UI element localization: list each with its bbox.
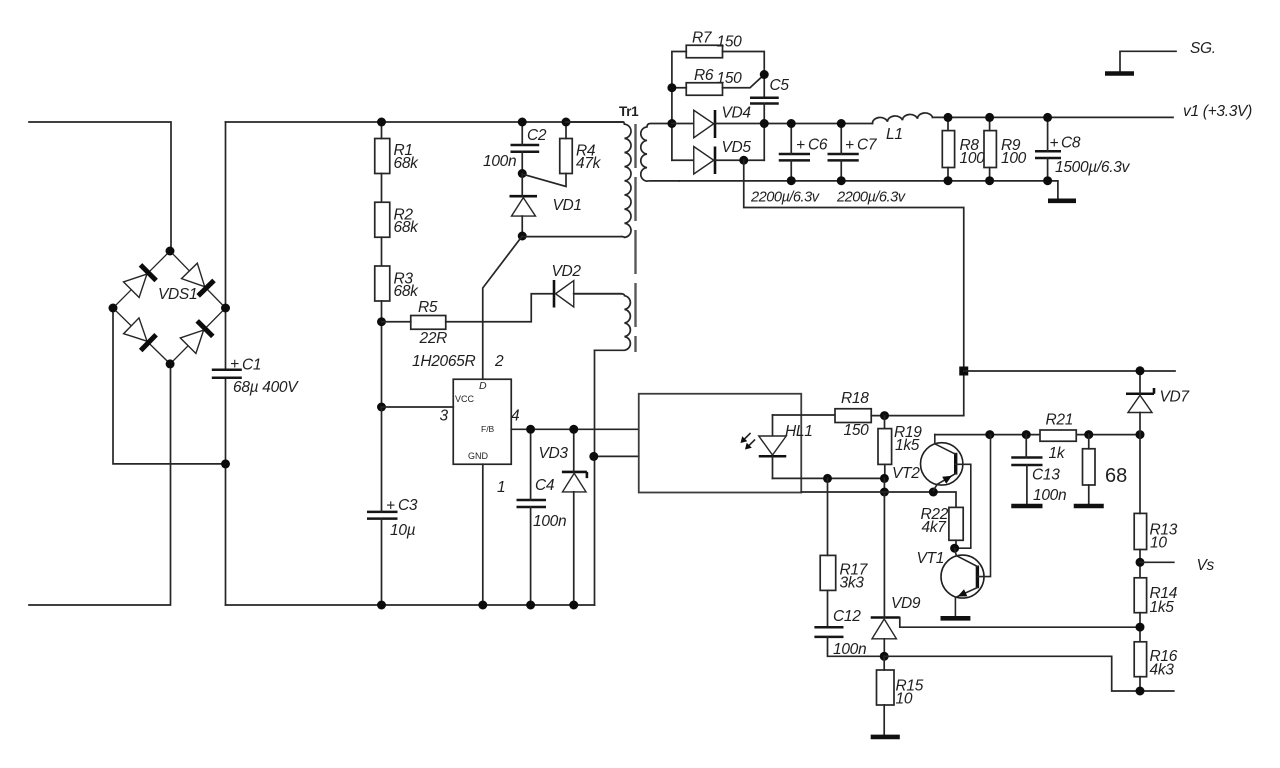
wire: VD1 node to transformer primary bottom <box>522 236 621 238</box>
resistor R18 <box>835 390 871 439</box>
wire: C4 leads <box>530 429 532 605</box>
wire: R22 bottom lead <box>955 540 957 548</box>
node: R16 bottom junction <box>1136 687 1145 696</box>
svg-text:+: + <box>230 356 239 373</box>
capacitor C4 <box>517 477 567 530</box>
wire: R5 to VD2 <box>446 294 554 322</box>
ground: SG symbol <box>1105 40 1216 74</box>
svg-text:v1 (+3.3V): v1 (+3.3V) <box>1183 103 1252 120</box>
wire: feedback top rail to VD7 <box>964 370 1175 372</box>
wire: R19 leads <box>884 416 886 479</box>
node: R5 junction <box>377 317 386 326</box>
svg-text:68k: 68k <box>394 219 420 236</box>
svg-text:100: 100 <box>960 150 986 167</box>
wire: R1-R2 link <box>381 122 383 202</box>
node: rail at C8 <box>1043 113 1052 122</box>
node: C5 top junction <box>760 70 769 79</box>
diode VD4 <box>672 105 752 139</box>
wire: VD2 to feedback winding <box>574 293 621 295</box>
node: VD7 anode junction <box>1136 430 1145 439</box>
diode VD2 <box>552 263 582 308</box>
node: 68 resistor junction <box>1084 430 1093 439</box>
wire: VD3 leads <box>573 429 575 605</box>
node: bus at C4 <box>526 601 535 610</box>
wire: C13 leads <box>1025 435 1028 505</box>
svg-text:68µ 400V: 68µ 400V <box>233 379 299 396</box>
zener diode VD3 <box>539 445 587 492</box>
svg-text:2: 2 <box>494 353 504 370</box>
svg-text:C8: C8 <box>1061 135 1081 152</box>
resistor R7 <box>686 30 742 58</box>
transistor VT2 <box>892 435 971 549</box>
wire: LED cathode to VT2 base row <box>773 477 885 479</box>
wire: VT2 collector rail <box>935 434 1140 436</box>
svg-text:C13: C13 <box>1032 467 1060 484</box>
resistor R13 <box>1134 513 1178 551</box>
wire: C8 leads <box>1047 117 1049 180</box>
svg-text:4k7: 4k7 <box>922 519 948 536</box>
node: bottom bus at C7 <box>837 176 846 185</box>
wire: C12 bottom to R15 node <box>828 637 885 656</box>
svg-text:C7: C7 <box>857 137 878 154</box>
svg-text:1k: 1k <box>1049 445 1066 462</box>
capacitor C12 <box>814 608 866 658</box>
resistor R19 <box>878 424 922 464</box>
resistor R6 <box>686 67 742 95</box>
wire: R7/R6 left vertical <box>672 52 686 161</box>
inductor L1 <box>872 113 932 143</box>
svg-text:VD7: VD7 <box>1160 389 1191 406</box>
optocoupler HL1 box <box>639 394 813 493</box>
wire: lower row to R22 <box>801 492 956 507</box>
svg-text:R5: R5 <box>418 299 438 316</box>
wire: C5 bottom lead <box>763 104 765 161</box>
wire: diagonal to chip pin D <box>483 236 523 379</box>
svg-text:C12: C12 <box>833 608 861 625</box>
wire: R14 bottom lead <box>1139 613 1141 642</box>
wire: C2 leads <box>521 122 523 174</box>
resistor R2 <box>375 202 419 237</box>
wire: VD9 cathode hook to R14/R16 node <box>900 618 1140 628</box>
LED of HL1 <box>759 415 787 478</box>
node: bridge right junction <box>221 304 230 313</box>
ground: output bus ground <box>1048 199 1076 204</box>
node: bridge left junction <box>109 304 118 313</box>
svg-text:VCC: VCC <box>455 394 475 404</box>
wire: VCC pin 3 <box>382 406 454 408</box>
wire: VD5 node to feedback network <box>744 160 964 415</box>
node: bus at R8 <box>944 176 953 185</box>
wire: +DC top rail <box>226 121 624 123</box>
svg-text:150: 150 <box>717 34 743 51</box>
wire: C3 leads <box>381 407 383 605</box>
svg-text:10: 10 <box>896 691 913 708</box>
svg-text:HL1: HL1 <box>785 423 813 440</box>
svg-text:C3: C3 <box>398 497 418 514</box>
node: top rail at R1 <box>377 118 386 127</box>
node: lower row junction <box>880 488 889 497</box>
node: VCC junction <box>377 403 386 412</box>
resistor R14 <box>1134 578 1178 616</box>
wire: VD7 leads <box>1139 371 1141 435</box>
svg-text:10µ: 10µ <box>390 522 416 539</box>
wire: bridge left node to negative rail <box>113 308 226 464</box>
svg-text:1: 1 <box>497 479 505 496</box>
svg-text:100n: 100n <box>483 153 516 170</box>
svg-text:VD3: VD3 <box>539 445 569 462</box>
svg-text:10: 10 <box>1150 535 1167 552</box>
svg-text:100n: 100n <box>1033 487 1066 504</box>
IC U1 1H2065R <box>412 353 511 464</box>
node: R6 left junction <box>667 83 676 92</box>
ground: VT1 emitter <box>941 616 971 621</box>
node: VD7 top junction <box>1136 366 1145 375</box>
node: bus at R-chain <box>377 601 386 610</box>
node: bus at C8 <box>1043 176 1052 185</box>
svg-text:1500µ/6.3v: 1500µ/6.3v <box>1055 159 1131 176</box>
svg-text:1k5: 1k5 <box>1150 599 1175 616</box>
zener diode VD7 <box>1126 388 1190 413</box>
svg-text:VD4: VD4 <box>722 105 752 122</box>
resistor R22 <box>921 506 964 540</box>
zener diode VD9 <box>871 595 921 639</box>
svg-text:R7: R7 <box>692 30 713 47</box>
node: VD4 anode junction <box>667 119 676 128</box>
wire: GND pin 1 to bus <box>482 464 484 605</box>
wire: VD1 leads <box>521 174 523 237</box>
svg-text:C5: C5 <box>770 77 790 94</box>
node: top rail at C2 <box>518 118 527 127</box>
wire: stub to optocoupler lower pin <box>594 455 639 457</box>
wire: R15 leads <box>883 656 885 736</box>
node: rail at R8 <box>944 113 953 122</box>
resistor R15 <box>877 670 924 708</box>
node: R17 top junction <box>823 474 832 483</box>
node: feedback leg junction <box>589 452 598 461</box>
capacitor C6 <box>779 137 828 161</box>
wire: bridge right node up to +DC rail <box>225 122 227 370</box>
svg-text:+: + <box>1050 135 1059 152</box>
svg-text:4k3: 4k3 <box>1150 662 1175 679</box>
node: F/B at VD3 <box>569 425 578 434</box>
svg-text:1H2065R: 1H2065R <box>412 353 475 370</box>
svg-text:Tr1: Tr1 <box>619 104 639 119</box>
svg-text:GND: GND <box>468 451 489 461</box>
node: R14/R16 junction <box>1136 623 1145 632</box>
wire: R16 bottom lead <box>1139 677 1141 691</box>
wire: lower bus to R16 <box>884 656 1174 691</box>
wire: AC input top (left edge to bridge top) <box>29 122 171 251</box>
node: R19 bottom junction <box>880 474 889 483</box>
svg-text:2200µ/6.3v: 2200µ/6.3v <box>836 190 906 206</box>
node: C2 bottom junction <box>518 169 527 178</box>
node: R18/R19 junction <box>880 411 889 420</box>
wire: VD9 leads <box>883 492 885 656</box>
resistor R4 <box>560 139 602 174</box>
resistor R16 <box>1134 642 1178 679</box>
node: rail at C7 <box>837 119 846 128</box>
svg-text:F/B: F/B <box>481 424 495 434</box>
svg-text:47k: 47k <box>576 155 602 172</box>
svg-text:+: + <box>386 498 395 515</box>
svg-text:SG.: SG. <box>1190 40 1216 57</box>
node: Vs junction <box>1136 558 1145 567</box>
capacitor C3 <box>367 497 418 539</box>
capacitor C13 <box>1011 458 1066 505</box>
node: rail at C6 <box>787 119 796 128</box>
wire: feedback winding down leg to bottom bus <box>594 350 596 605</box>
svg-text:R18: R18 <box>841 390 869 407</box>
svg-text:4: 4 <box>511 408 520 425</box>
wire: bottom bus (negative rail) <box>226 604 595 606</box>
svg-text:VD1: VD1 <box>553 197 582 214</box>
wire: AC input bottom (left edge to bridge bottom) <box>29 364 171 605</box>
wire: R3 to R5 node and down to VCC node <box>381 301 383 407</box>
svg-text:+: + <box>845 137 854 154</box>
wire: R7 right lead down to C5 <box>723 52 765 98</box>
wire: R9 leads <box>989 117 991 180</box>
capacitor C2 <box>483 127 547 170</box>
svg-text:VDS1: VDS1 <box>158 286 197 303</box>
svg-text:2200µ/6.3v: 2200µ/6.3v <box>750 190 820 206</box>
svg-text:VD2: VD2 <box>552 263 582 280</box>
node: bridge top junction <box>166 247 175 256</box>
svg-text:VD9: VD9 <box>891 595 921 612</box>
svg-text:3k3: 3k3 <box>840 575 865 592</box>
wire: 68 resistor leads <box>1088 435 1090 505</box>
wire: link down to lower row <box>883 478 885 492</box>
wire: VD5 cathode to C5 branch <box>715 159 764 161</box>
svg-text:22R: 22R <box>419 330 448 347</box>
node: R22/VT1 collector junction <box>950 544 959 553</box>
svg-text:VT2: VT2 <box>892 465 920 482</box>
resistor R8 <box>942 131 985 168</box>
diode VD1 <box>510 196 582 216</box>
svg-text:C1: C1 <box>242 357 261 374</box>
wire: output bottom bus <box>679 181 1058 200</box>
capacitor C1 <box>212 356 299 396</box>
resistor R9 <box>984 131 1027 168</box>
ground: 68 resistor <box>1074 504 1104 509</box>
svg-text:C6: C6 <box>808 137 828 154</box>
resistor R21 <box>1040 412 1076 463</box>
svg-text:1k5: 1k5 <box>895 437 920 454</box>
transistor VT1 <box>917 435 991 618</box>
capacitor C8 <box>1035 135 1131 177</box>
wire: R18 right lead to riser <box>871 415 964 417</box>
svg-text:100: 100 <box>1001 150 1027 167</box>
capacitor C7 <box>828 137 878 161</box>
node: R15 junction <box>880 652 889 661</box>
node: bus at VD3 <box>569 601 578 610</box>
resistor R3 <box>375 266 419 301</box>
diode bridge VDS1 <box>113 251 226 364</box>
svg-text:Vs: Vs <box>1197 557 1215 574</box>
node: square junction <box>959 367 968 376</box>
wire: C1 bottom down to bottom bus <box>225 378 227 605</box>
svg-text:68k: 68k <box>394 155 420 172</box>
svg-text:100n: 100n <box>533 513 566 530</box>
svg-text:VT1: VT1 <box>917 550 945 567</box>
wire: Vs tap <box>1140 561 1174 563</box>
wire: R5 left lead <box>382 321 411 323</box>
svg-text:D: D <box>479 380 487 392</box>
svg-text:R6: R6 <box>694 67 714 84</box>
svg-text:C2: C2 <box>527 127 547 144</box>
wire: R17 leads <box>827 478 829 627</box>
wire: R2-R3 link <box>381 237 383 266</box>
wire: VD4 cathode rail to L1 <box>715 123 873 125</box>
capacitor C5 <box>750 77 789 104</box>
svg-text:R21: R21 <box>1046 412 1074 429</box>
node: bus at GND pin <box>478 601 487 610</box>
resistor R5 <box>411 299 447 347</box>
svg-text:68k: 68k <box>394 283 420 300</box>
node: bus at R9 <box>985 176 994 185</box>
svg-text:L1: L1 <box>886 126 903 143</box>
diode VD5 <box>672 139 752 174</box>
node: rail at R9 <box>985 113 994 122</box>
node: VT1 base junction <box>985 430 994 439</box>
svg-text:150: 150 <box>844 422 870 439</box>
wire: LED anode to R18 <box>773 414 836 416</box>
node: F/B at C4 <box>526 425 535 434</box>
ground: R15 <box>871 735 900 740</box>
wire: C6 leads <box>790 124 792 181</box>
node: VD4 rail at C5 <box>760 119 769 128</box>
svg-text:C4: C4 <box>535 477 555 494</box>
resistor 68 <box>1083 449 1128 487</box>
resistor R1 <box>375 139 419 174</box>
ground: C13 <box>1011 504 1042 509</box>
resistor R17 <box>820 555 869 591</box>
node: bridge bottom junction <box>166 359 175 368</box>
svg-text:VD5: VD5 <box>722 139 752 156</box>
node: top rail at R4 <box>562 118 571 127</box>
node: VT2 emitter junction <box>929 488 938 497</box>
LED arrows <box>741 434 755 450</box>
node: bottom bus at C6 <box>787 176 796 185</box>
wire: +3.3V rail <box>933 116 1174 118</box>
wire: R8 leads <box>947 117 949 180</box>
svg-text:68: 68 <box>1105 465 1127 487</box>
wire: C7 leads <box>840 124 842 181</box>
node: C1 negative junction <box>221 459 230 468</box>
wire: R6 right jog <box>723 75 765 88</box>
wire: R4 leads and diagonal to C2 node <box>524 122 566 187</box>
svg-text:150: 150 <box>717 70 743 87</box>
transformer Tr1 <box>566 104 679 352</box>
wire: R13 leads <box>1139 435 1141 578</box>
svg-text:3: 3 <box>440 408 449 425</box>
node: VD1 bottom junction <box>518 232 527 241</box>
wire: F/B pin 4 to optocoupler <box>511 428 638 430</box>
node: VD5 cathode junction <box>739 156 748 165</box>
node: C13 junction <box>1022 430 1031 439</box>
svg-text:+: + <box>796 137 805 154</box>
